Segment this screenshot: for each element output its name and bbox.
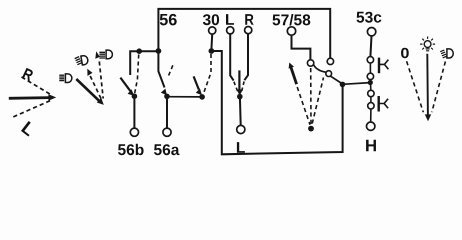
lever arrowhead down <box>425 114 431 121</box>
arrowhead arm <box>196 88 202 95</box>
beam symbol middle (tilted) <box>75 55 89 65</box>
switch lever solid <box>426 54 429 115</box>
dashed lever link <box>297 87 310 125</box>
turn signal lever (left indicator group) <box>9 68 56 137</box>
label L bottom <box>237 142 245 153</box>
terminal L top <box>227 27 234 34</box>
wire bus 56 <box>130 51 158 75</box>
label 56b <box>118 144 144 155</box>
wire 30 down <box>210 34 213 50</box>
junction horn column <box>368 80 373 85</box>
position L dashed <box>13 100 51 117</box>
label H <box>366 140 376 152</box>
wire R down with stub <box>244 34 248 80</box>
contact 56 side <box>327 58 333 64</box>
turn signal switch contact <box>234 70 245 152</box>
contact node <box>237 94 243 100</box>
moving arm (open) <box>194 76 199 89</box>
node 30 distribution <box>340 82 346 88</box>
terminal 57/58 <box>287 27 295 35</box>
pivot node <box>308 126 314 132</box>
wire bus 56a to parking contact <box>167 96 202 98</box>
junction dimmer link <box>136 48 142 54</box>
wire 30 feed loop to horn <box>211 51 342 154</box>
contact node 56a <box>164 94 170 100</box>
label 0 <box>401 48 409 58</box>
dashed position R <box>241 81 244 93</box>
wire 57/58 to contact <box>292 35 311 59</box>
terminal 53c <box>367 28 375 36</box>
dashed position 0 <box>407 61 424 112</box>
wire 53c down <box>370 36 371 57</box>
contact B <box>367 73 373 79</box>
lever arrowhead <box>48 94 56 101</box>
moving arm 56a (closed) <box>158 51 164 88</box>
wire 56 top feed <box>158 9 330 58</box>
wire to terminal 56b <box>133 96 135 128</box>
wire A-B <box>369 63 371 73</box>
label R <box>22 68 34 81</box>
arrowhead to middle symbol <box>87 69 92 76</box>
dashed link to 30 <box>204 54 212 94</box>
junction 30 <box>209 48 215 54</box>
wire to terminal 56a <box>166 96 168 128</box>
dashed position L <box>234 82 239 94</box>
wire D to H <box>370 109 372 122</box>
dashed link to 56b arm <box>135 55 139 94</box>
label L top <box>226 14 234 25</box>
contact node <box>199 94 205 100</box>
terminal R top <box>245 27 252 34</box>
dimmer lever solid arm <box>76 79 99 101</box>
pushbutton K1 <box>379 58 388 74</box>
parking light switch contact <box>194 54 211 100</box>
dimmer lever arrowhead <box>97 98 104 105</box>
moving arm 56b (open) <box>120 78 130 92</box>
light switch indicator group <box>401 37 453 122</box>
bulb symbol <box>420 37 435 51</box>
terminal 56 label <box>160 14 177 26</box>
lever arm solid <box>9 96 50 100</box>
contact C <box>368 90 374 96</box>
dashed position headlight <box>432 62 446 113</box>
label 30 <box>203 14 219 25</box>
label 53c <box>357 12 382 23</box>
arrowhead neutral arm <box>237 89 243 95</box>
label L <box>21 121 36 136</box>
dashed alternate position 56a <box>169 64 174 76</box>
wire L down with stub <box>230 34 233 81</box>
dimmer lever indicator group <box>59 50 112 105</box>
terminal L bottom <box>237 125 245 133</box>
wire B to C <box>369 80 371 91</box>
low beam symbol left <box>59 74 72 83</box>
label 56a <box>154 144 180 155</box>
arrowhead 56b arm <box>128 89 135 96</box>
moving arm neutral <box>238 70 240 89</box>
contact D <box>368 103 374 109</box>
terminal 30 <box>209 27 216 34</box>
arrowhead 56a arm <box>161 89 167 96</box>
contact A <box>367 57 373 63</box>
contact 57/58 side <box>307 60 313 66</box>
flasher bridge arm <box>314 65 326 73</box>
junction 56 feed <box>156 48 162 54</box>
dashed link to high beam symbol <box>99 62 103 99</box>
flasher lever arrowhead <box>289 63 294 69</box>
terminal 56b <box>130 128 138 136</box>
pushbutton K2 <box>379 96 388 112</box>
beam symbol right <box>440 49 453 58</box>
wire pivot to node <box>331 76 342 83</box>
arrowhead to high beam symbol <box>95 51 100 58</box>
label 57/58 <box>273 14 311 26</box>
dashed link to middle symbol <box>90 76 101 99</box>
position R dashed <box>22 77 53 95</box>
dashed link to 57/58 contact <box>310 68 312 125</box>
terminal H <box>367 122 375 130</box>
wire node to horn column <box>343 83 371 85</box>
flasher arm pivot contact <box>326 71 332 77</box>
wire C-D <box>370 97 372 103</box>
turn signal mechanism pivot <box>289 63 324 132</box>
terminal 56a <box>163 128 171 136</box>
label R top <box>245 14 253 25</box>
wire to lamp terminal <box>239 97 242 126</box>
flasher lever stroke <box>291 68 297 85</box>
contact node 56b <box>132 93 138 99</box>
dashed link to arm pivot <box>312 78 323 124</box>
high beam symbol top right <box>99 50 112 59</box>
dimmer switch contact 56a <box>154 51 180 155</box>
dimmer switch contact 56b <box>118 55 144 156</box>
